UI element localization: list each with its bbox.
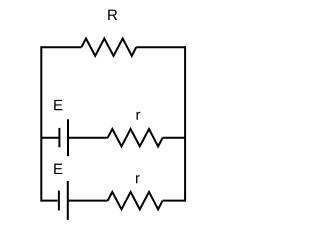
battery B2 short plate (negative) [58,191,60,211]
wire middle branch right [163,137,186,139]
resistor r (middle) zigzag [108,129,163,146]
wire middle branch left [41,137,58,139]
wire top-right segment [136,46,185,48]
wire right vertical [184,46,186,201]
battery B2 long plate (positive) [67,181,69,220]
wire middle battery to resistor [68,137,108,139]
resistor R1 (R) zigzag [81,39,136,56]
resistor r (bottom) zigzag [108,192,163,209]
wire top-left segment [41,46,81,48]
battery B1 long plate (positive) [67,119,69,156]
wire bottom branch right [163,200,186,202]
wire bottom branch left [41,200,57,202]
label E (bottom battery) [54,164,62,174]
label E (middle battery) [54,100,62,110]
battery B1 short plate (negative) [58,128,60,147]
label R [108,10,117,20]
label r (bottom resistor) [136,175,140,183]
wire bottom battery to resistor [68,200,108,202]
label r (middle resistor) [137,112,141,120]
wire left vertical [40,46,42,201]
